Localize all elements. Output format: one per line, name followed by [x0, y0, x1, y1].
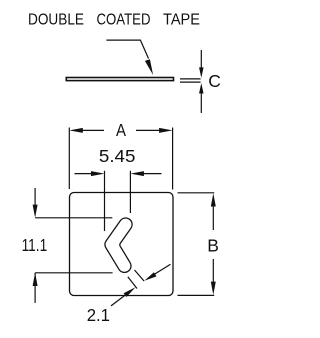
- svg-text:2.1: 2.1: [87, 305, 110, 325]
- svg-text:TAPE: TAPE: [163, 12, 200, 29]
- svg-text:COATED: COATED: [97, 12, 151, 29]
- svg-text:A: A: [116, 120, 126, 140]
- svg-text:C: C: [208, 71, 221, 91]
- svg-text:5.45: 5.45: [99, 146, 135, 166]
- svg-text:B: B: [207, 236, 219, 256]
- svg-text:11.1: 11.1: [22, 235, 48, 255]
- svg-text:DOUBLE: DOUBLE: [28, 12, 84, 29]
